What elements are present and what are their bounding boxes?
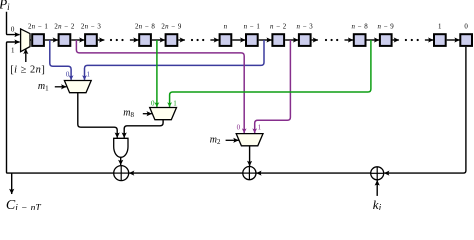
svg-text:Pi: Pi: [0, 0, 10, 12]
svg-text:Ci − nT: Ci − nT: [6, 198, 41, 210]
svg-text:m2: m2: [210, 135, 221, 147]
svg-text:n − 1: n − 1: [244, 24, 261, 31]
svg-text:m1: m1: [38, 81, 49, 93]
svg-text:2n − 9: 2n − 9: [161, 24, 181, 31]
svg-text:1: 1: [173, 100, 177, 108]
svg-text:0: 0: [151, 100, 155, 108]
svg-text:1: 1: [11, 46, 15, 54]
svg-text:2n − 3: 2n − 3: [81, 24, 101, 31]
svg-text:n − 3: n − 3: [297, 24, 314, 31]
svg-text:n − 2: n − 2: [270, 24, 287, 31]
svg-text:1: 1: [438, 24, 442, 31]
svg-text:n: n: [224, 24, 228, 31]
svg-text:0: 0: [464, 24, 468, 31]
svg-text:2n − 8: 2n − 8: [135, 24, 155, 31]
svg-text:n − 9: n − 9: [378, 24, 395, 31]
svg-text:1: 1: [258, 124, 262, 132]
svg-text:ki: ki: [373, 197, 382, 210]
svg-text:0: 0: [237, 124, 241, 132]
svg-text:0: 0: [11, 26, 15, 34]
svg-text:2n − 2: 2n − 2: [54, 24, 74, 31]
svg-text:m8: m8: [123, 107, 134, 119]
svg-text:0: 0: [66, 70, 70, 78]
svg-text:1: 1: [86, 70, 90, 78]
svg-text:[i ≥ 2n]: [i ≥ 2n]: [10, 65, 45, 76]
svg-text:2n − 1: 2n − 1: [28, 24, 48, 31]
svg-text:n − 8: n − 8: [351, 24, 368, 31]
